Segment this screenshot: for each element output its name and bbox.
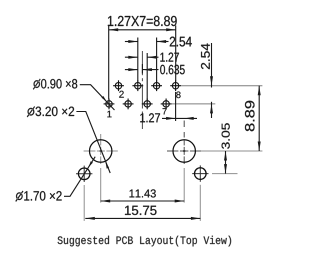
dimension 0.635 (125, 64, 159, 74)
mounting hole right M2 crosshair (167, 141, 201, 165)
text 8.89 vertical (245, 101, 255, 131)
pin label 7 (163, 108, 167, 114)
leader Ø3.20 to mounting hole M1 (76, 112, 110, 174)
pad 1 (104, 99, 115, 110)
text 3.05 vertical (222, 123, 230, 149)
text 1.27X7=8.89 (108, 16, 177, 26)
dimension 11.43 (101, 200, 185, 202)
mounting hole M2 (Ø3.20) (173, 140, 195, 162)
text Ø1.70 ×2 (15, 191, 61, 202)
pad 3 (123, 99, 134, 110)
pad 7 (161, 99, 172, 110)
dimension 2.54 top (125, 38, 169, 82)
text Ø0.90 ×8 (33, 79, 77, 90)
dimension 1.27 top (125, 53, 159, 100)
pin label 2 (119, 91, 124, 98)
small hole S2 (Ø1.70) (195, 168, 207, 180)
text 2.54 top (170, 37, 192, 47)
dimension 2.54 vertical right (211, 43, 213, 118)
pad 2 (113, 80, 124, 91)
pad 8 (170, 80, 181, 91)
text Ø3.20 ×2 (27, 106, 74, 117)
text 15.75 (125, 206, 157, 215)
text 0.635 (160, 65, 185, 75)
text 2.54 vertical (201, 44, 210, 70)
pad 5 (142, 99, 153, 110)
text 1.27 top (160, 53, 179, 62)
small hole right S2 crosshair (192, 165, 208, 181)
leader Ø1.70 to small hole S1 (64, 157, 95, 197)
dimension 1.27 bottom (pad8 col to hole col) (162, 92, 197, 121)
centerline of pad field (141, 51, 143, 75)
mounting hole left M1 crosshair (84, 134, 118, 203)
pin label 8 (176, 92, 180, 99)
small hole S1 (Ø1.70) (78, 168, 90, 180)
dimension 8.89 vertical right (258, 86, 260, 151)
title: Suggested PCB Layout(Top View) (58, 236, 232, 247)
dimension 1.27X7=8.89 line (109, 26, 176, 100)
text 11.43 (130, 189, 156, 197)
mounting hole M1 (Ø3.20) (90, 140, 112, 162)
dimension 15.75 (85, 217, 200, 219)
centerline above hole M2 (183, 121, 185, 138)
gray extension row from pad 7 (172, 103, 216, 105)
gray extension row from pad 8 (181, 85, 262, 87)
pin label 1 (107, 111, 111, 118)
leader Ø0.90 to pad 1 (80, 85, 115, 110)
pad 4 (132, 80, 143, 91)
pad 6 (151, 80, 162, 91)
small hole left S1 crosshair (76, 166, 92, 182)
text 1.27 bottom (140, 113, 160, 122)
dimension 3.05 vertical (225, 151, 227, 174)
